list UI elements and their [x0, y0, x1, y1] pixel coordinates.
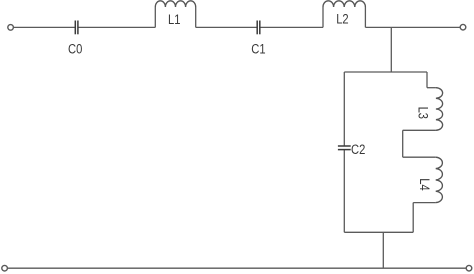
svg-text:L3: L3	[415, 107, 430, 119]
svg-text:C0: C0	[68, 41, 82, 56]
svg-text:L4: L4	[417, 178, 432, 190]
svg-text:L2: L2	[336, 12, 348, 27]
svg-text:C1: C1	[251, 41, 265, 56]
svg-text:C2: C2	[351, 142, 365, 157]
svg-text:L1: L1	[168, 12, 180, 27]
